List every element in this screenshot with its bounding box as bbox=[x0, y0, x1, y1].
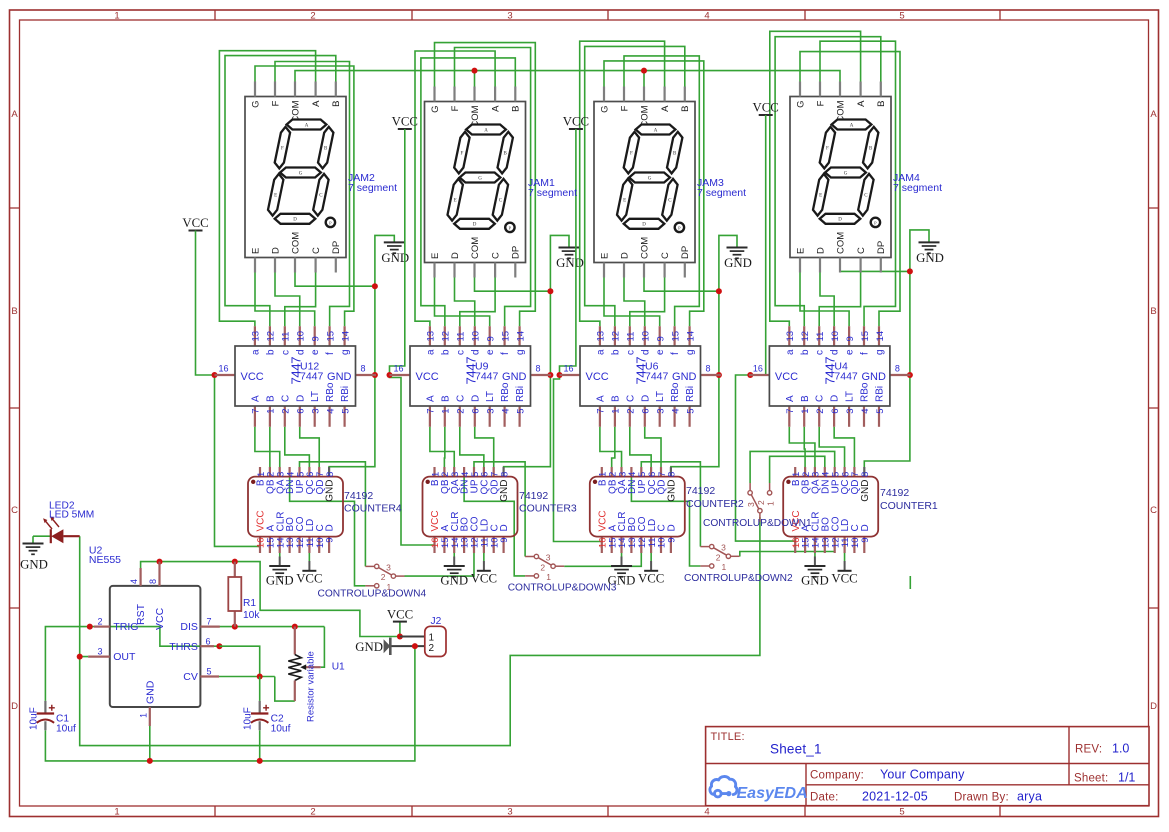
wire: JAM1 pin D to 7447 pin 10 (d) bbox=[455, 278, 475, 327]
svg-text:10uf: 10uf bbox=[271, 724, 291, 735]
junction: J2 pin1/VCC bbox=[397, 634, 403, 640]
wire: C1 bottom to GND rail to J2 pin 2 bbox=[45, 646, 415, 761]
JAM4 segment B bbox=[863, 127, 878, 169]
svg-text:B: B bbox=[1150, 306, 1156, 317]
wire: JAM4 pin C to 7447 pin 11 (c) bbox=[819, 273, 860, 327]
74192 counter COUNTER1 body bbox=[783, 477, 878, 537]
capacitor C2 leads bbox=[259, 701, 261, 730]
svg-text:B: B bbox=[331, 101, 342, 107]
ground symbol below counter (stage JAM2) bbox=[269, 565, 290, 567]
svg-text:Drawn By:: Drawn By: bbox=[954, 792, 1009, 804]
svg-text:GND: GND bbox=[861, 371, 886, 383]
junction: U12 pin16 bbox=[212, 372, 218, 378]
VCC symbol for U6 bbox=[569, 128, 583, 130]
svg-text:d: d bbox=[830, 349, 841, 355]
junction: display COM / gnd loop (stage JAM3) bbox=[716, 288, 722, 294]
svg-text:COUNTER4: COUNTER4 bbox=[344, 503, 402, 515]
wire: VCC stem to J2 pin 1 bbox=[399, 622, 401, 637]
JAM1 bottom pin stubs bbox=[433, 263, 435, 278]
svg-text:F: F bbox=[450, 105, 461, 111]
wire: JAM1 pin E to 7447 pin 9 (e) bbox=[435, 278, 490, 327]
COUNTER1 bottom pin stubs (16-9) bbox=[794, 537, 796, 553]
wire: GND symbol to LED cathode bbox=[33, 535, 50, 537]
JAM4 segment A bbox=[832, 120, 872, 130]
svg-text:VCC: VCC bbox=[638, 572, 664, 586]
wire: JAM4 pin D to 7447 pin 10 (d) bbox=[820, 273, 834, 327]
svg-text:5: 5 bbox=[899, 11, 904, 22]
svg-text:C: C bbox=[625, 395, 636, 402]
wire: JAM3 pin D to 7447 pin 10 (d) bbox=[624, 278, 645, 327]
svg-text:a: a bbox=[250, 349, 261, 355]
svg-text:c: c bbox=[455, 350, 466, 355]
svg-text:C: C bbox=[856, 247, 867, 254]
junction: J2 pin2/GND bbox=[412, 643, 418, 649]
svg-text:D: D bbox=[295, 395, 306, 402]
JAM2 segment G bbox=[280, 168, 321, 178]
wire: GND stem for LED bbox=[32, 536, 34, 543]
wire: JAM1 pin C to 7447 pin 11 (c) bbox=[460, 278, 495, 327]
svg-text:e: e bbox=[655, 349, 666, 355]
U6 left pin 16 stub bbox=[560, 374, 581, 376]
74192 counter COUNTER2 body bbox=[590, 477, 685, 537]
svg-text:CV: CV bbox=[183, 671, 198, 683]
svg-text:E: E bbox=[430, 253, 441, 259]
svg-text:e: e bbox=[845, 349, 856, 355]
svg-text:13: 13 bbox=[785, 331, 796, 342]
74192 counter COUNTER4 body bbox=[248, 477, 343, 537]
svg-text:7 segment: 7 segment bbox=[697, 187, 746, 199]
svg-text:6: 6 bbox=[296, 409, 307, 414]
svg-text:2: 2 bbox=[281, 409, 292, 414]
GND flag at J2 bbox=[389, 638, 392, 655]
svg-text:d: d bbox=[295, 349, 306, 355]
svg-text:F: F bbox=[461, 151, 464, 156]
svg-text:7447: 7447 bbox=[475, 370, 499, 382]
ground symbol near JAM2 bbox=[384, 241, 405, 243]
switch CONTROLUP&DOWN3 lever bbox=[538, 558, 551, 565]
JAM2 top pin stubs bbox=[254, 82, 256, 97]
wire: 7447 C output to counter QC (stage JAM3) bbox=[630, 427, 651, 467]
svg-text:10: 10 bbox=[296, 331, 307, 342]
svg-text:16: 16 bbox=[564, 364, 574, 374]
svg-text:D: D bbox=[619, 252, 630, 259]
svg-text:a: a bbox=[595, 349, 606, 355]
NE555 pin 4 RST stub bbox=[140, 568, 142, 586]
svg-text:COM: COM bbox=[290, 232, 301, 254]
wire: 7447 pin 8 GND to ground vertical (stage JAM2) bbox=[375, 374, 376, 376]
wire: 7447 A output to counter QA (stage JAM3) bbox=[600, 427, 622, 467]
svg-text:e: e bbox=[485, 349, 496, 355]
svg-text:RBi: RBi bbox=[685, 386, 696, 402]
switch CONTROLUP&DOWN4 lever bbox=[379, 568, 392, 575]
svg-text:8: 8 bbox=[860, 472, 871, 477]
svg-text:RBo: RBo bbox=[500, 382, 511, 402]
svg-text:F: F bbox=[270, 100, 281, 106]
svg-text:3: 3 bbox=[97, 647, 102, 657]
wire: VCC symbol to U6 pin 16 and COUNTER2 pin 16 bbox=[554, 129, 602, 542]
JAM1 segment A bbox=[466, 125, 506, 135]
7447 decoder U9 top pin stubs (pins 13 12 11 10 9 15 14) bbox=[429, 326, 431, 346]
switch CONTROLUP&DOWN1 (vertical) bbox=[749, 483, 751, 491]
svg-text:7 segment: 7 segment bbox=[893, 182, 942, 194]
svg-text:1: 1 bbox=[429, 633, 435, 644]
ground symbol below counter (stage JAM3) bbox=[611, 565, 632, 567]
svg-text:D: D bbox=[473, 223, 477, 228]
svg-text:7 segment: 7 segment bbox=[348, 182, 397, 194]
U4 bottom pin stubs (pins 7 1 2 6 3 4 5) bbox=[788, 406, 790, 427]
svg-text:7447: 7447 bbox=[834, 370, 858, 382]
svg-text:C: C bbox=[490, 252, 501, 259]
COUNTER3 polarity dot bbox=[426, 480, 430, 484]
svg-text:RBi: RBi bbox=[515, 386, 526, 402]
wire: JAM3 pin C to 7447 pin 11 (c) bbox=[630, 278, 665, 327]
svg-text:4: 4 bbox=[500, 409, 511, 414]
svg-text:EasyEDA: EasyEDA bbox=[737, 785, 808, 802]
svg-text:A: A bbox=[595, 395, 606, 402]
74192 counter COUNTER3 body bbox=[423, 477, 518, 537]
svg-text:D: D bbox=[860, 524, 871, 531]
svg-text:Resistor variable: Resistor variable bbox=[306, 651, 317, 722]
wire: CV line to C2 top and pot bottom riser bbox=[219, 676, 275, 678]
JAM4 segment D bbox=[820, 214, 861, 224]
svg-text:3: 3 bbox=[656, 409, 667, 414]
NE555 pin 2 TRIG stub bbox=[94, 625, 110, 627]
svg-text:6: 6 bbox=[205, 636, 210, 646]
svg-text:2: 2 bbox=[429, 643, 435, 654]
U9 bottom pin stubs (pins 7 1 2 6 3 4 5) bbox=[429, 406, 431, 427]
svg-text:c: c bbox=[815, 350, 826, 355]
wire: JAM1 pin F to 7447 pin 15 (f) bbox=[455, 48, 531, 327]
svg-text:GND: GND bbox=[355, 640, 383, 654]
svg-text:COM: COM bbox=[470, 237, 481, 259]
junction: TRIG bbox=[87, 624, 93, 630]
svg-text:2021-12-05: 2021-12-05 bbox=[862, 790, 928, 804]
svg-text:13: 13 bbox=[251, 331, 262, 342]
JAM1 segment E bbox=[448, 179, 463, 221]
svg-text:2: 2 bbox=[815, 409, 826, 414]
wire: JAM1 pin A to 7447 pin 13 (a) bbox=[415, 51, 495, 326]
wire+stem: counter CLR pin to GND (stage JAM2) bbox=[279, 553, 281, 557]
svg-text:E: E bbox=[250, 248, 261, 254]
COUNTER1 polarity dot bbox=[786, 480, 790, 484]
wire: 7447 pin 8 GND to ground vertical (stage JAM4) bbox=[909, 374, 912, 376]
wire: JAM2 pin G to 7447 pin 14 (g) bbox=[255, 66, 354, 326]
VCC bar below counter (stage JAM4) bbox=[838, 570, 852, 572]
svg-text:F: F bbox=[619, 105, 630, 111]
svg-text:10: 10 bbox=[641, 331, 652, 342]
svg-text:GND: GND bbox=[20, 558, 48, 572]
wire+stem: counter LD pin to VCC (stage JAM1) bbox=[483, 553, 485, 561]
wire: JAM1 pin G to 7447 pin 14 (g) bbox=[435, 43, 536, 327]
svg-text:C: C bbox=[11, 505, 18, 516]
wire: JAM4 pin F to 7447 pin 15 (f) bbox=[820, 41, 896, 326]
JAM3 decimal point DP bbox=[675, 223, 684, 232]
U12 left pin 16 stub bbox=[215, 374, 236, 376]
svg-text:LT: LT bbox=[845, 391, 856, 402]
title block outer border bbox=[706, 727, 1149, 806]
svg-text:9: 9 bbox=[656, 336, 667, 341]
JAM3 segment F bbox=[624, 132, 639, 174]
svg-text:TITLE:: TITLE: bbox=[711, 731, 745, 743]
junction: C2/THRS on CV line bbox=[257, 674, 263, 680]
74192 counter COUNTER3 top pin stubs (1-8) bbox=[433, 467, 435, 477]
wire: ground loop up to GND symbol (JAM1) bbox=[550, 235, 569, 291]
svg-text:E: E bbox=[795, 248, 806, 254]
capacitor C2 top plate bbox=[251, 712, 268, 714]
svg-text:8: 8 bbox=[667, 472, 678, 477]
switch CONTROLUP&DOWN4 pin 3 terminal bbox=[375, 564, 379, 568]
svg-text:11: 11 bbox=[815, 332, 826, 342]
U9 right pin 8 stub bbox=[531, 374, 552, 376]
svg-text:d: d bbox=[470, 349, 481, 355]
svg-text:f: f bbox=[860, 352, 871, 355]
wire: JAM3 pin A to 7447 pin 13 (a) bbox=[580, 41, 665, 326]
svg-text:F: F bbox=[281, 146, 284, 151]
wire+stem: counter LD pin to VCC (stage JAM3) bbox=[650, 553, 652, 561]
U4 right pin 8 stub bbox=[890, 374, 911, 376]
svg-text:Your Company: Your Company bbox=[880, 768, 965, 782]
7447 decoder U4 top pin stubs (pins 13 12 11 10 9 15 14) bbox=[788, 326, 790, 346]
svg-text:LT: LT bbox=[485, 391, 496, 402]
svg-text:F: F bbox=[826, 146, 829, 151]
JAM3 segment G bbox=[629, 173, 670, 183]
svg-text:1: 1 bbox=[546, 572, 551, 582]
JAM4 segment E bbox=[813, 174, 828, 216]
7-segment display JAM2 body bbox=[245, 97, 346, 258]
junction: R1 top on VCC rail bbox=[232, 559, 238, 565]
wire: 7447 D output to counter QD (stage JAM3) bbox=[645, 427, 661, 467]
svg-text:C: C bbox=[815, 395, 826, 402]
svg-text:D: D bbox=[830, 395, 841, 402]
svg-text:2: 2 bbox=[97, 617, 102, 627]
svg-text:3: 3 bbox=[507, 807, 512, 818]
wire: counter DN pin through body to switch pin 1 (stage JAM1) bbox=[464, 467, 525, 576]
svg-text:10k: 10k bbox=[243, 610, 260, 621]
svg-text:15: 15 bbox=[860, 331, 871, 342]
svg-text:6: 6 bbox=[830, 409, 841, 414]
svg-text:RBo: RBo bbox=[860, 382, 871, 402]
svg-text:b: b bbox=[440, 349, 451, 355]
svg-text:G: G bbox=[478, 176, 482, 181]
svg-text:2: 2 bbox=[716, 552, 721, 562]
switch CONTROLUP&DOWN3 pin 3 terminal bbox=[534, 554, 538, 558]
wire: CV riser to pot bottom bbox=[275, 677, 295, 702]
svg-text:3: 3 bbox=[721, 543, 726, 553]
wire: ground net vertical to counter pin 8 GND (stage JAM4) bbox=[864, 271, 910, 467]
svg-text:f: f bbox=[670, 352, 681, 355]
svg-text:GND: GND bbox=[502, 371, 527, 383]
wire: C2 top lead bbox=[259, 677, 261, 701]
junction on COM bus at JAM3 bbox=[641, 68, 647, 74]
JAM3 top pin stubs bbox=[603, 87, 605, 102]
wire: 7447 A output to counter QA (stage JAM1) bbox=[430, 427, 454, 467]
COUNTER2 polarity dot bbox=[593, 480, 597, 484]
wire: C2 bottom to GND rail bbox=[259, 730, 261, 761]
wire: THRS to CV/C2 node bbox=[219, 646, 259, 676]
wire: NE555 OUT clock line to switch CONTROLUP&DOWN1 common bbox=[80, 517, 760, 746]
svg-text:g: g bbox=[340, 349, 351, 355]
wire: COUNTER1 DN pin to switch CONTROLUP&DOWN1 pin 1 bbox=[770, 456, 825, 483]
svg-text:A: A bbox=[311, 100, 322, 107]
svg-text:RBo: RBo bbox=[325, 382, 336, 402]
svg-text:f: f bbox=[500, 352, 511, 355]
EasyEDA logo cloud bbox=[710, 777, 737, 797]
capacitor C2 plus sign bbox=[263, 705, 269, 711]
svg-text:THRS: THRS bbox=[169, 641, 198, 653]
wire: JAM2 pin B to 7447 pin 12 (b) bbox=[225, 56, 336, 327]
LED2 cathode bar bbox=[50, 529, 52, 543]
svg-text:C: C bbox=[660, 252, 671, 259]
svg-text:C: C bbox=[455, 395, 466, 402]
svg-text:A: A bbox=[305, 123, 309, 128]
svg-text:COM: COM bbox=[835, 232, 846, 254]
svg-text:5: 5 bbox=[340, 409, 351, 414]
svg-text:1: 1 bbox=[114, 807, 119, 818]
wire: switch CONTROLUP&DOWN3 common to COUNTER2 pin 12 bbox=[564, 548, 641, 566]
wire: 7447 B output to counter QB (stage JAM2) bbox=[269, 427, 271, 467]
svg-text:1: 1 bbox=[114, 11, 119, 22]
svg-text:4: 4 bbox=[129, 579, 139, 584]
svg-text:10uF: 10uF bbox=[29, 707, 40, 730]
wire+stem: counter CLR pin to GND (stage JAM1) bbox=[453, 553, 455, 557]
7-segment display JAM4 body bbox=[790, 97, 891, 258]
ground symbol below counter (stage JAM4) bbox=[804, 565, 825, 567]
JAM3 segment B bbox=[667, 132, 682, 174]
wire: JAM3 COM drop from bus bbox=[643, 71, 645, 87]
svg-text:TRIG: TRIG bbox=[113, 621, 138, 633]
wire: 7447 B output to counter QB (stage JAM4) bbox=[803, 427, 806, 467]
svg-text:14: 14 bbox=[875, 331, 886, 342]
JAM2 segment D bbox=[275, 214, 316, 224]
switch CONTROLUP&DOWN3 pin 3 lead bbox=[525, 556, 534, 558]
JAM4 top pin stubs bbox=[799, 82, 801, 97]
junction: potentiometer top on DIS line bbox=[292, 624, 298, 630]
COUNTER4 bottom pin stubs (16-9) bbox=[259, 537, 261, 553]
svg-text:A: A bbox=[425, 395, 436, 402]
svg-text:E: E bbox=[819, 194, 822, 199]
junction: display COM / gnd loop (stage JAM4) bbox=[907, 268, 913, 274]
svg-text:B: B bbox=[610, 395, 621, 402]
svg-text:B: B bbox=[440, 395, 451, 402]
svg-text:D: D bbox=[470, 395, 481, 402]
wire: JAM3 pin F to 7447 pin 15 (f) bbox=[624, 56, 699, 326]
J2 pin 2 lead bbox=[391, 645, 425, 647]
svg-text:A: A bbox=[490, 105, 501, 112]
switch CONTROLUP&DOWN3 common terminal (pin 2) bbox=[551, 564, 555, 568]
wire: 7447 C output to counter QC (stage JAM4) bbox=[819, 427, 844, 467]
svg-text:COUNTER3: COUNTER3 bbox=[519, 503, 577, 515]
svg-text:4: 4 bbox=[670, 409, 681, 414]
svg-text:D: D bbox=[499, 524, 510, 531]
wire: switch CONTROLUP&DOWN2 common to COUNTER1 pin 12 bbox=[740, 548, 835, 557]
junction: R1 bottom on DIS line bbox=[232, 624, 238, 630]
switch CONTROLUP&DOWN3 pin 1 lead bbox=[525, 575, 534, 577]
svg-text:E: E bbox=[454, 199, 457, 204]
svg-text:DIS: DIS bbox=[180, 621, 198, 633]
svg-text:8: 8 bbox=[148, 579, 158, 584]
svg-text:4: 4 bbox=[704, 11, 709, 22]
svg-text:c: c bbox=[625, 350, 636, 355]
potentiometer U1 zigzag bbox=[288, 655, 301, 681]
wire: JAM1 pin B to 7447 pin 12 (b) bbox=[421, 58, 515, 326]
svg-text:7: 7 bbox=[785, 409, 796, 414]
svg-text:5: 5 bbox=[875, 409, 886, 414]
svg-text:A: A bbox=[11, 109, 18, 120]
svg-text:74192: 74192 bbox=[344, 490, 373, 502]
svg-text:VCC: VCC bbox=[154, 607, 166, 630]
svg-text:U1: U1 bbox=[332, 662, 345, 673]
wire: LED anode down to NE555 OUT bbox=[80, 536, 88, 656]
resistor R1 body bbox=[228, 577, 241, 611]
svg-text:14: 14 bbox=[685, 331, 696, 342]
svg-text:D: D bbox=[640, 395, 651, 402]
wire: JAM4 pin E to 7447 pin 9 (e) bbox=[800, 273, 849, 327]
frame column ticks bbox=[214, 10, 216, 817]
svg-text:GND: GND bbox=[325, 480, 336, 502]
wire: 7447 B output to counter QB (stage JAM3) bbox=[612, 427, 615, 467]
switch CONTROLUP&DOWN2 pin 3 lead bbox=[700, 546, 709, 548]
svg-text:1: 1 bbox=[138, 713, 148, 718]
wire: JAM2 pin E to 7447 pin 9 (e) bbox=[255, 273, 315, 327]
junction: U6 pin16 bbox=[557, 372, 563, 378]
svg-text:A: A bbox=[856, 100, 867, 107]
NE555 pin 8 VCC stub bbox=[158, 562, 160, 586]
wire: ground loop up to GND symbol (JAM4) bbox=[910, 230, 929, 272]
svg-text:7: 7 bbox=[251, 409, 262, 414]
NE555 timer U2 body bbox=[110, 586, 201, 707]
svg-text:A: A bbox=[484, 128, 488, 133]
JAM2 segment F bbox=[275, 127, 290, 169]
switch CONTROLUP&DOWN4 pin 1 terminal bbox=[375, 584, 379, 588]
svg-text:VCC: VCC bbox=[387, 608, 413, 622]
svg-text:GND: GND bbox=[327, 371, 352, 383]
VCC symbol for U12 bbox=[189, 230, 203, 232]
JAM4 decimal point DP bbox=[871, 218, 880, 227]
LED2 light arrows bbox=[44, 518, 59, 530]
JAM1 segment C bbox=[493, 179, 508, 221]
svg-text:B: B bbox=[265, 395, 276, 402]
switch CONTROLUP&DOWN2 pin 2 lead bbox=[731, 555, 740, 557]
junction on COM bus at JAM1 bbox=[472, 68, 478, 74]
svg-text:15: 15 bbox=[670, 331, 681, 342]
svg-text:d: d bbox=[640, 349, 651, 355]
svg-text:LT: LT bbox=[655, 391, 666, 402]
VCC symbol for U9 bbox=[398, 128, 412, 130]
svg-text:B: B bbox=[680, 106, 691, 112]
JAM4 segment C bbox=[858, 174, 873, 216]
svg-text:VCC: VCC bbox=[471, 572, 497, 586]
svg-text:5: 5 bbox=[515, 409, 526, 414]
wire: 7447 B output to counter QB (stage JAM1) bbox=[443, 427, 445, 467]
svg-text:2: 2 bbox=[456, 409, 467, 414]
svg-text:D: D bbox=[11, 701, 18, 712]
svg-text:D: D bbox=[325, 524, 336, 531]
svg-text:C: C bbox=[311, 247, 322, 254]
wire: NE555 GND pin to GND rail bbox=[149, 726, 151, 761]
svg-text:8: 8 bbox=[361, 364, 366, 374]
svg-text:2: 2 bbox=[381, 572, 386, 582]
wire: 7447 A output to counter QA (stage JAM4) bbox=[789, 427, 815, 467]
svg-text:REV:: REV: bbox=[1075, 744, 1102, 756]
wire: counter DN pin through body to switch pin 1 (stage JAM2) bbox=[290, 467, 366, 586]
svg-text:GND: GND bbox=[801, 574, 829, 588]
VCC bar below counter (stage JAM1) bbox=[477, 570, 491, 572]
svg-text:4: 4 bbox=[704, 807, 709, 818]
wire: ground net vertical to counter pin 8 GND (stage JAM1) bbox=[504, 291, 551, 467]
svg-text:7 segment: 7 segment bbox=[528, 187, 577, 199]
COUNTER2 bottom pin stubs (16-9) bbox=[601, 537, 603, 553]
svg-text:14: 14 bbox=[340, 331, 351, 342]
